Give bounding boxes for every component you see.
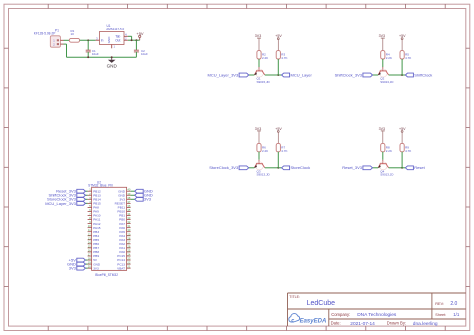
svg-text:15: 15	[88, 244, 91, 248]
svg-text:DNA Technologies: DNA Technologies	[357, 312, 397, 318]
svg-text:20: 20	[88, 265, 91, 269]
svg-text:30: 30	[127, 228, 130, 232]
svg-text:StoreClock_3V3: StoreClock_3V3	[209, 165, 239, 170]
svg-text:3V3: 3V3	[379, 34, 385, 38]
svg-text:S9013,JD: S9013,JD	[380, 80, 394, 84]
svg-text:28: 28	[127, 236, 130, 240]
svg-text:S9013,JD: S9013,JD	[380, 173, 394, 177]
svg-text:KF128-5.08-2P: KF128-5.08-2P	[34, 32, 56, 36]
svg-text:13: 13	[88, 236, 91, 240]
svg-text:Date:: Date:	[331, 321, 341, 326]
svg-text:MCU_Layer_3V3: MCU_Layer_3V3	[208, 72, 239, 77]
svg-text:ShiftClock: ShiftClock	[414, 72, 432, 77]
svg-text:TITLE:: TITLE:	[289, 295, 300, 299]
svg-text:3V3: 3V3	[255, 127, 261, 131]
svg-text:4.7K: 4.7K	[281, 56, 287, 60]
svg-text:36: 36	[127, 204, 130, 208]
svg-text:26: 26	[127, 244, 130, 248]
svg-text:4.7K: 4.7K	[405, 56, 411, 60]
svg-text:14: 14	[88, 240, 91, 244]
svg-text:Out: Out	[115, 38, 120, 42]
svg-text:11: 11	[88, 228, 91, 232]
svg-text:StoreClock: StoreClock	[291, 165, 311, 170]
svg-text:18: 18	[88, 257, 91, 261]
svg-text:31: 31	[127, 224, 130, 228]
svg-text:16: 16	[88, 248, 91, 252]
svg-text:Drawn By:: Drawn By:	[387, 321, 406, 326]
svg-text:MCU_Layer_3V3: MCU_Layer_3V3	[45, 201, 76, 206]
svg-text:3V3: 3V3	[93, 266, 99, 270]
svg-text:3V3: 3V3	[255, 34, 261, 38]
svg-text:38: 38	[127, 196, 130, 200]
svg-text:4.7K: 4.7K	[281, 149, 287, 153]
svg-text:10: 10	[88, 224, 91, 228]
svg-text:37: 37	[127, 200, 130, 204]
svg-text:ShiftClock_3V3: ShiftClock_3V3	[335, 72, 363, 77]
svg-text:21: 21	[127, 265, 130, 269]
svg-text:AMS1117-5.0: AMS1117-5.0	[106, 27, 124, 31]
svg-text:23: 23	[127, 257, 130, 261]
svg-text:P1: P1	[55, 29, 59, 33]
svg-text:S9013,JD: S9013,JD	[257, 173, 271, 177]
svg-text:10uF: 10uF	[92, 52, 99, 56]
svg-text:VBAT: VBAT	[117, 266, 125, 270]
svg-text:29: 29	[127, 232, 130, 236]
svg-text:17: 17	[88, 253, 91, 257]
svg-text:2021-07-14: 2021-07-14	[350, 321, 375, 327]
svg-text:40: 40	[127, 188, 130, 192]
svg-text:2.2K: 2.2K	[262, 149, 268, 153]
svg-text:27: 27	[127, 240, 130, 244]
svg-text:4.7K: 4.7K	[405, 149, 411, 153]
svg-text:25: 25	[127, 248, 130, 252]
svg-text:32: 32	[127, 220, 130, 224]
svg-text:Company:: Company:	[331, 312, 350, 317]
svg-text:+5V: +5V	[136, 31, 144, 36]
svg-text:Reset_3V3: Reset_3V3	[342, 165, 363, 170]
svg-text:3V3: 3V3	[69, 266, 77, 271]
svg-text:2.2K: 2.2K	[386, 149, 392, 153]
svg-text:10: 10	[71, 32, 75, 36]
svg-text:S9015,JD: S9015,JD	[257, 80, 271, 84]
svg-text:1/1: 1/1	[453, 312, 460, 317]
svg-text:35: 35	[127, 208, 130, 212]
svg-text:3V3: 3V3	[379, 127, 385, 131]
svg-text:2.2K: 2.2K	[386, 56, 392, 60]
svg-text:2.0: 2.0	[450, 301, 457, 307]
svg-text:19: 19	[88, 261, 91, 265]
svg-text:12: 12	[88, 232, 91, 236]
svg-text:34: 34	[127, 212, 130, 216]
svg-text:Sheet:: Sheet:	[435, 313, 446, 317]
svg-text:STM32_Blue_Pill: STM32_Blue_Pill	[88, 184, 113, 188]
svg-text:MCU_Layer: MCU_Layer	[291, 72, 313, 77]
svg-text:LedCube: LedCube	[307, 300, 336, 307]
svg-text:2.2K: 2.2K	[262, 56, 268, 60]
svg-text:dna.leerling: dna.leerling	[413, 321, 438, 327]
svg-text:EasyEDA: EasyEDA	[300, 318, 327, 324]
svg-text:22: 22	[127, 261, 130, 265]
svg-text:39: 39	[127, 192, 130, 196]
svg-text:REV:: REV:	[435, 302, 444, 306]
svg-text:3V3: 3V3	[144, 197, 152, 202]
svg-text:BluePill_STM32: BluePill_STM32	[95, 273, 118, 277]
svg-text:24: 24	[127, 253, 130, 257]
svg-text:In: In	[101, 38, 104, 42]
svg-text:10uF: 10uF	[141, 52, 148, 56]
svg-text:33: 33	[127, 216, 130, 220]
svg-text:GND: GND	[107, 64, 118, 69]
svg-text:GND: GND	[107, 36, 111, 44]
svg-text:Reset: Reset	[414, 165, 425, 170]
